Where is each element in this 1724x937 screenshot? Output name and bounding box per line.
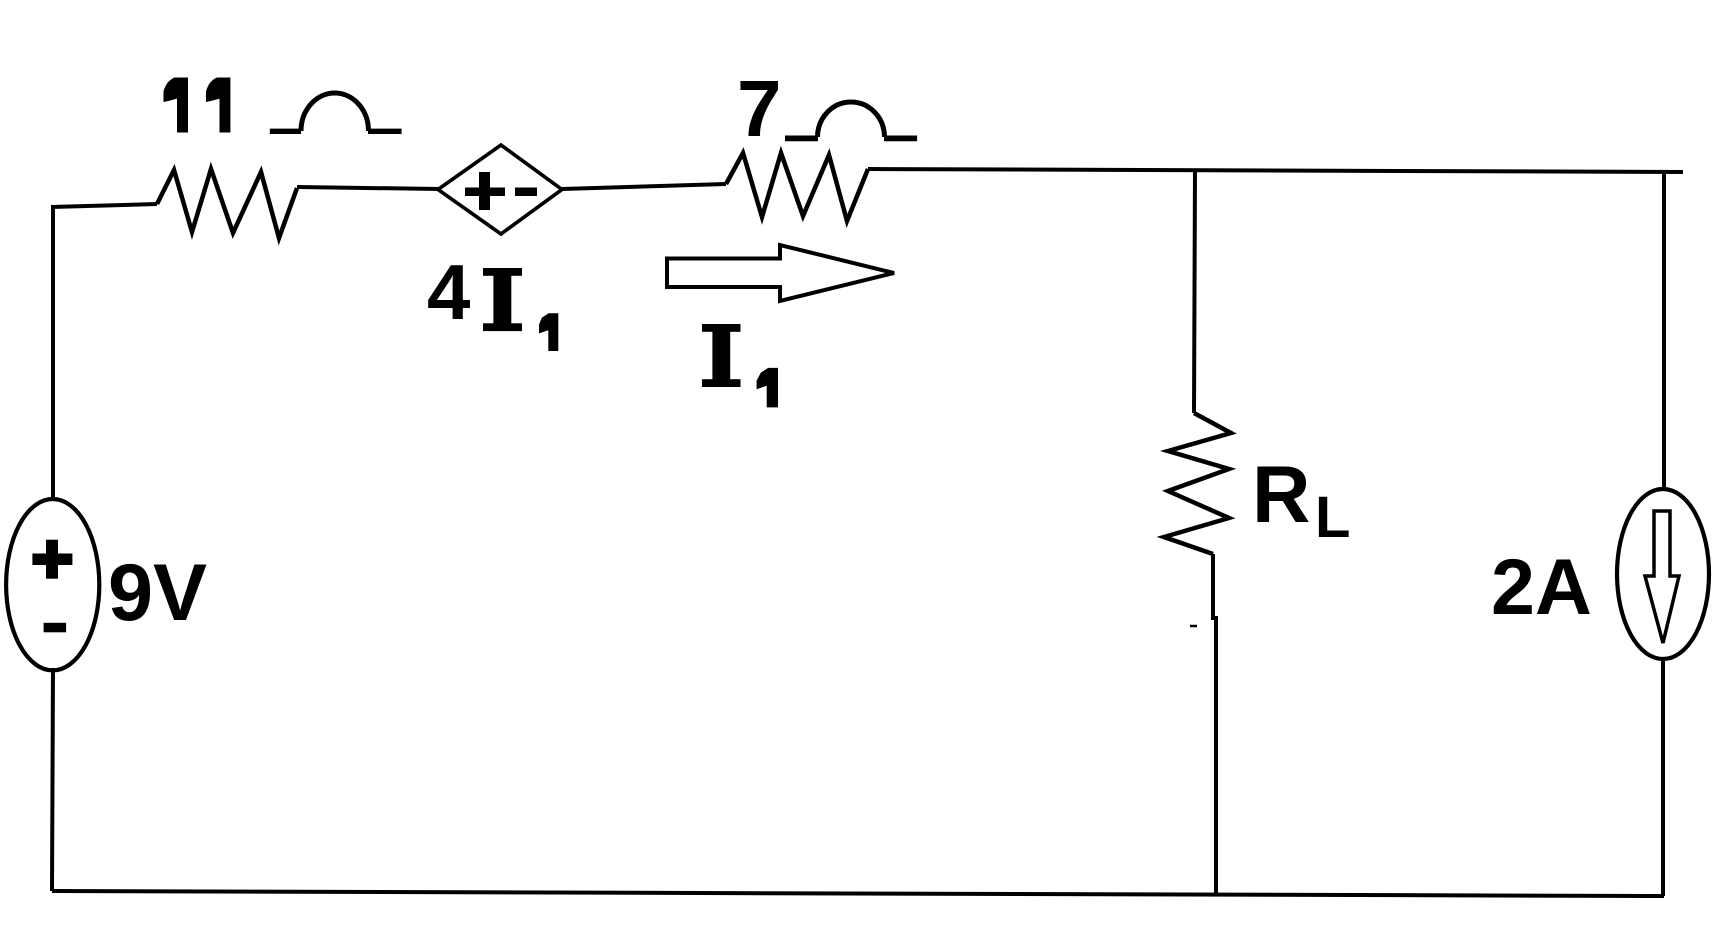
label I1 xyxy=(702,324,778,407)
svg-text:4: 4 xyxy=(427,248,470,336)
wire top-left horizontal xyxy=(51,204,157,207)
wire RL branch vertical top xyxy=(1194,170,1195,413)
voltage source 9V (ellipse) xyxy=(6,499,99,670)
svg-text:9V: 9V xyxy=(108,548,207,638)
value label 11 xyxy=(164,78,231,133)
ohm symbol for resistor 7 xyxy=(785,102,917,138)
resistor RL (vertical zigzag) xyxy=(1164,413,1231,554)
current arrow I1 xyxy=(667,245,894,301)
minus sign inside dependent source xyxy=(515,188,537,197)
wire right vertical top xyxy=(1662,172,1666,490)
svg-text:R: R xyxy=(1252,450,1311,540)
minus sign inside voltage source xyxy=(44,623,67,633)
plus sign inside dependent source xyxy=(465,172,505,210)
label RL xyxy=(1252,450,1350,550)
current source 2A (ellipse) xyxy=(1617,489,1709,659)
wire resistor11 to dependent source xyxy=(297,187,440,189)
wire left vertical bottom segment xyxy=(52,668,53,891)
ohm symbol for resistor 11 xyxy=(270,93,402,131)
wire dependent source to resistor 7 xyxy=(562,184,726,189)
value label 4I1 xyxy=(427,248,558,351)
resistor 7 (zigzag) xyxy=(726,153,868,221)
svg-text:L: L xyxy=(1315,485,1350,550)
wire right vertical bottom xyxy=(1661,659,1665,896)
resistor 11 (zigzag) xyxy=(157,169,297,238)
dependent source U1 (diamond) xyxy=(438,145,562,234)
svg-text:2A: 2A xyxy=(1491,542,1592,631)
plus sign inside voltage source xyxy=(32,540,72,579)
arrow inside current source xyxy=(1645,511,1679,643)
wire bottom horizontal xyxy=(52,891,1664,896)
wire RL bottom xyxy=(1213,554,1216,893)
wire left vertical top segment xyxy=(51,205,55,500)
stray dash mark xyxy=(1190,625,1197,628)
wire top horizontal xyxy=(868,169,1683,172)
svg-text:7: 7 xyxy=(737,64,782,153)
